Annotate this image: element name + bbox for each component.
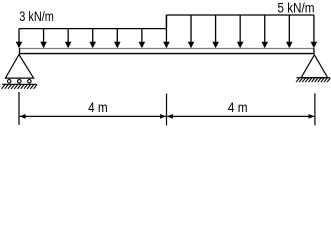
arrow 9 — [215, 15, 217, 42]
svg-text:3 kN/m: 3 kN/m — [19, 9, 54, 25]
ground hatching — [296, 78, 330, 82]
arrow 2 — [43, 29, 45, 43]
arrow 1 — [18, 29, 20, 43]
beam left end (node A) — [19, 48, 21, 54]
svg-text:5 kN/m: 5 kN/m — [277, 0, 314, 16]
beam top edge — [19, 48, 315, 50]
arrow 4 — [92, 29, 94, 43]
label 5 kN/m — [277, 0, 314, 16]
arrow 11 — [264, 15, 266, 42]
distributed load arrows — [16, 15, 318, 48]
ground line — [2, 83, 37, 85]
label 4 m right span — [228, 99, 248, 115]
ground hatching — [2, 85, 37, 89]
arrow 10 — [239, 15, 241, 42]
dim arrowhead right — [309, 114, 315, 119]
right support (pin) — [296, 55, 330, 82]
svg-text:4 m: 4 m — [228, 99, 248, 115]
arrow 12 — [288, 15, 290, 42]
load line 3 kN/m segment — [19, 28, 166, 30]
arrow 3 — [67, 29, 69, 43]
ground line — [296, 77, 329, 79]
left support (roller) — [2, 55, 37, 89]
roller circles — [7, 80, 11, 84]
dim arrowhead mid-left — [160, 114, 166, 119]
extension line middle — [166, 94, 168, 126]
svg-text:4 m: 4 m — [88, 99, 108, 115]
beam AB — [19, 48, 315, 54]
beam right end (node B) — [313, 48, 315, 54]
beam bottom edge — [19, 53, 315, 55]
arrow 6 — [141, 29, 143, 43]
arrow 7 (at step) — [165, 15, 167, 42]
label 4 m left span — [88, 99, 108, 115]
triangle — [301, 55, 327, 78]
dim arrowhead left — [20, 114, 26, 119]
dimension line — [20, 115, 315, 117]
label 3 kN/m — [19, 9, 54, 25]
extension line right — [314, 93, 316, 125]
arrow 5 — [116, 29, 118, 43]
load line 5 kN/m segment — [166, 14, 313, 16]
extension line left — [18, 92, 20, 125]
arrow 8 — [190, 15, 192, 42]
load step at midspan — [165, 15, 167, 29]
arrow 13 — [313, 15, 315, 42]
dim arrowhead mid-right — [167, 114, 173, 119]
triangle — [5, 55, 33, 79]
